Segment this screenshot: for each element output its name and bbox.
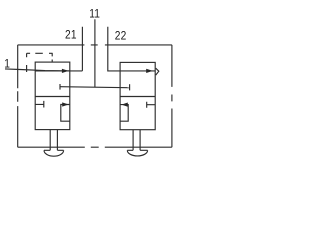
valve V2 bottom-box U path with arrow <box>120 103 128 122</box>
valve V2 top-box flow line with arrow <box>120 69 155 73</box>
inner dashed box remnant top edge <box>27 52 53 54</box>
valve V2 bottom-box blocked port T <box>147 102 156 108</box>
svg-text:11: 11 <box>89 8 100 21</box>
valve V2 body <box>120 62 155 129</box>
svg-text:22: 22 <box>115 30 127 43</box>
valve V1 divider <box>35 96 70 98</box>
enclosure left edge (chain line) <box>17 45 19 147</box>
enclosure top edge (chain line) <box>18 44 172 46</box>
enclosure right edge (chain line) <box>171 45 173 147</box>
valve V1 bottom-box blocked port T <box>35 101 44 108</box>
push button actuator B2 stem <box>133 130 140 151</box>
valve V1 top-box flow line with arrow <box>35 69 70 73</box>
valve V2 divider <box>120 96 155 98</box>
valve V1 top-box blocked port T-bar <box>59 84 61 90</box>
wire 21 connection <box>70 27 83 71</box>
wire 11 branch across both valves <box>60 87 130 88</box>
push button actuator B1 mushroom cap <box>44 150 64 156</box>
valve V2 exhaust open triangle <box>156 68 159 75</box>
svg-text:21: 21 <box>65 29 77 42</box>
enclosure bottom edge (chain line) <box>18 146 172 148</box>
wire 22 connection <box>108 27 120 71</box>
valve V1 body <box>35 62 70 130</box>
push button actuator B2 mushroom cap <box>127 150 147 156</box>
valve V1 bottom-box U path with arrow <box>61 102 70 121</box>
push button actuator B1 stem <box>50 130 57 151</box>
inner dashed box remnant left edge <box>26 53 28 72</box>
wire port 1 supply line <box>5 69 70 71</box>
inner dashed box remnant right edge <box>51 53 53 61</box>
valve V2 top-box blocked port T-bar <box>129 84 131 90</box>
wire 11 down line <box>94 19 96 87</box>
